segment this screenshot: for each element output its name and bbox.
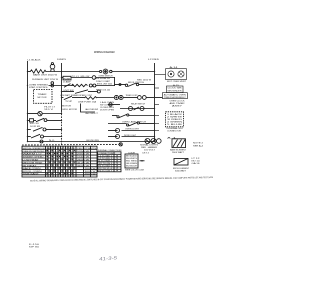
stub wire to motor box (155, 74, 166, 76)
L wire (81, 104, 96, 113)
svg-text:PUSH TO START: PUSH TO START (96, 80, 111, 83)
svg-text:SW ON: SW ON (30, 123, 40, 125)
svg-text:41-3-5: 41-3-5 (99, 255, 118, 261)
bake element box (172, 139, 186, 148)
neutral bus wire lower (61, 111, 63, 145)
svg-text:SIMMER SPEED: SIMMER SPEED (23, 157, 45, 159)
wire (112, 71, 155, 73)
svg-text:TIMER: TIMER (38, 94, 48, 96)
svg-text:CIRCUIT WATTS: CIRCUIT WATTS (77, 147, 97, 150)
wire (139, 84, 155, 86)
timer motor box (34, 90, 53, 104)
legend chart box (125, 154, 138, 168)
wire row 2 (61, 77, 63, 79)
svg-text:GROUND WIRE: GROUND WIRE (86, 140, 100, 142)
svg-text:3120 W: 3120 W (77, 162, 90, 164)
svg-text:15 AMP: 15 AMP (63, 80, 72, 83)
terminal T2 (110, 70, 112, 72)
stub to timer assembly (155, 97, 163, 99)
switch chart table (22, 146, 97, 177)
svg-text:TOP: TOP (65, 101, 74, 103)
svg-text:UNIT SW: UNIT SW (64, 90, 74, 92)
terminal (109, 103, 112, 106)
contact pair (89, 84, 92, 87)
wire row 2b (115, 84, 126, 86)
wire row 6 (108, 104, 120, 106)
svg-text:RELAY COIL 240: RELAY COIL 240 (96, 89, 110, 92)
terminal pair (138, 96, 142, 100)
svg-text:BU BLUE: BU BLUE (126, 166, 138, 168)
svg-text:P3 TO OR 7: P3 TO OR 7 (98, 170, 112, 172)
svg-text:2600 W: 2600 W (77, 160, 90, 162)
svg-text:MOTOR: MOTOR (62, 106, 72, 108)
svg-text:TERMINAL CONNECTIONS: TERMINAL CONNECTIONS (98, 149, 123, 152)
table X marks (46, 150, 75, 174)
svg-text:DOOR OPEN: DOOR OPEN (100, 110, 115, 112)
motor winding 2 (178, 71, 184, 77)
wire row 12 (28, 141, 155, 143)
contact S5 (117, 116, 119, 118)
ground terminal (119, 143, 122, 146)
svg-text:WORK LIGHT: WORK LIGHT (124, 135, 137, 137)
switch row A (28, 120, 30, 122)
svg-text:3600 W: 3600 W (77, 165, 90, 167)
svg-text:1560 W: 1560 W (77, 157, 90, 159)
svg-text:OVEN LIGHT: OVEN LIGHT (125, 129, 140, 131)
motor winding 1 (168, 71, 174, 77)
terminal block list (166, 112, 184, 127)
svg-text:GRILL MOTOR: GRILL MOTOR (62, 109, 78, 111)
lamp L7 (116, 135, 120, 139)
svg-text:1250 W: 1250 W (77, 151, 90, 153)
contact S4 (64, 96, 72, 99)
svg-text:HI HEAT: HI HEAT (23, 164, 39, 167)
svg-text:L2 RED: L2 RED (148, 59, 160, 61)
svg-text:WIRING DIAGRAM: WIRING DIAGRAM (94, 51, 115, 54)
contact K1 (92, 76, 96, 80)
lamp L5 (140, 107, 144, 111)
svg-text:NOTE 2: NOTE 2 (193, 143, 203, 145)
connection chart table (98, 152, 122, 172)
wire row 3 (49, 85, 75, 87)
tick on row 2b (119, 84, 121, 86)
svg-text:BAKE UNIT 2600 W: BAKE UNIT 2600 W (33, 74, 57, 77)
wire row 1 (28, 71, 31, 73)
svg-text:WARM LO: WARM LO (23, 153, 43, 156)
svg-text:CODE: CODE (128, 152, 136, 154)
svg-text:LOW WATT SIMMER SPEED CONT: LOW WATT SIMMER SPEED CONT (60, 94, 93, 97)
switch row C (28, 136, 31, 138)
svg-text:CKT 2: CKT 2 (142, 153, 149, 155)
resistor R2 (85, 97, 98, 100)
svg-text:SWITCH POSITIONS ON: SWITCH POSITIONS ON (47, 148, 76, 150)
svg-text:TIME BAKE: TIME BAKE (23, 173, 40, 176)
svg-text:OVEN SIGNAL SW: OVEN SIGNAL SW (94, 77, 110, 80)
terminal T1 (100, 70, 102, 72)
svg-text:BAKE OVEN: BAKE OVEN (23, 167, 42, 170)
svg-text:N.O.: N.O. (49, 140, 56, 142)
svg-text:TO L1: TO L1 (72, 76, 79, 78)
wire row 9 (108, 123, 127, 125)
selector knob (103, 69, 108, 74)
lamp L4 (129, 107, 133, 111)
contact S3 (75, 90, 88, 94)
contact slash (134, 107, 140, 110)
switch row B (28, 129, 31, 131)
svg-text:BROIL SWITCH: BROIL SWITCH (128, 82, 145, 84)
broil element symbol (174, 159, 188, 166)
svg-text:2600 WATT: 2600 WATT (172, 151, 185, 154)
svg-text:N WHITE: N WHITE (57, 59, 67, 61)
svg-text:GRILL SW: GRILL SW (80, 76, 89, 78)
svg-text:LAH OVEN SW: LAH OVEN SW (85, 108, 98, 111)
svg-text:WIRE COLOR CODE: WIRE COLOR CODE (125, 170, 145, 172)
wire (71, 77, 92, 79)
svg-text:5 BLUE: 5 BLUE (167, 124, 184, 126)
svg-text:OFF POSITION: OFF POSITION (23, 151, 45, 153)
terminal on row 12 (40, 140, 43, 143)
svg-text:ASSY: ASSY (172, 104, 184, 107)
switch S1 (125, 84, 127, 86)
svg-text:FUSE: FUSE (64, 78, 72, 80)
lamp L6 (116, 129, 120, 133)
wire row 8 (112, 115, 117, 117)
wire row 5 (62, 97, 64, 99)
timer module box (163, 93, 188, 99)
svg-text:RELAY SWITCH: RELAY SWITCH (131, 103, 146, 106)
wire (46, 71, 99, 73)
svg-text:SURFACE UNIT 1250 W: SURFACE UNIT 1250 W (32, 78, 58, 81)
chassis dashed line (22, 143, 119, 146)
svg-text:NP 80: NP 80 (29, 246, 41, 248)
svg-text:MOTOR: MOTOR (38, 97, 48, 99)
svg-text:MIN MINDER: MIN MINDER (168, 90, 183, 92)
pilot lamp PL1 (50, 64, 55, 69)
wire row 10 (108, 130, 118, 132)
switch S6 (127, 124, 129, 126)
wire (96, 77, 115, 79)
notes line (30, 176, 214, 183)
svg-text:2600 W: 2600 W (85, 168, 97, 170)
svg-text:MEDIUM HEAT: MEDIUM HEAT (23, 161, 44, 164)
fuse F1 (30, 69, 46, 73)
lamp cluster (145, 139, 150, 144)
stub wires from L2 bus (155, 88, 160, 131)
clock module box (167, 86, 184, 93)
fuse block (63, 76, 71, 80)
svg-text:2350 W: 2350 W (77, 154, 90, 156)
svg-text:LINE FUSE 15A: LINE FUSE 15A (78, 101, 97, 104)
svg-text:TIMER ASSEMBLY: TIMER ASSEMBLY (164, 96, 187, 99)
coil A (114, 95, 118, 99)
junction dots (27, 71, 155, 142)
svg-text:SEE A-4: SEE A-4 (193, 144, 203, 147)
svg-text:OVEN LAMP SWITCH: OVEN LAMP SWITCH (122, 120, 147, 123)
svg-text:SWITCH OPERATION: SWITCH OPERATION (23, 147, 46, 150)
svg-text:LOW HEAT: LOW HEAT (23, 159, 41, 162)
svg-text:A-15: A-15 (173, 84, 179, 87)
svg-text:MOT OVEN VENT: MOT OVEN VENT (167, 81, 187, 83)
wire row 11 (108, 136, 118, 138)
neutral bus wire (61, 63, 63, 111)
svg-text:STAT CONTROL: STAT CONTROL (29, 86, 49, 89)
L2 bus wire (154, 63, 156, 142)
wire row 4 (62, 91, 75, 93)
L1 bus wire (27, 61, 29, 142)
terminal (97, 90, 100, 93)
coil B (119, 95, 123, 99)
svg-text:L1 BLACK: L1 BLACK (28, 58, 42, 61)
wire (96, 85, 115, 87)
short bus (114, 77, 116, 86)
svg-text:DOOR SW: DOOR SW (30, 126, 40, 128)
svg-text:GA 16: GA 16 (192, 162, 200, 165)
fan motor box (166, 69, 187, 80)
svg-text:3000 WATT: 3000 WATT (175, 170, 187, 173)
svg-text:115 V: 115 V (44, 109, 55, 111)
svg-text:115 VOLT: 115 VOLT (144, 150, 156, 152)
wire row 7 (120, 108, 155, 110)
wire symbol sample (140, 160, 145, 162)
connector stack (51, 82, 54, 85)
svg-text:CONNECTOR: CONNECTOR (167, 131, 182, 133)
svg-text:2600 W: 2600 W (85, 174, 97, 176)
svg-text:AUTOMATIC OVEN: AUTOMATIC OVEN (164, 93, 187, 96)
svg-text:LAH OVEN CT: LAH OVEN CT (85, 112, 99, 115)
x marks second table (117, 155, 118, 171)
resistor R1 (72, 84, 88, 86)
contact S2 (64, 84, 71, 88)
svg-text:TIMER CONT: TIMER CONT (126, 95, 139, 97)
